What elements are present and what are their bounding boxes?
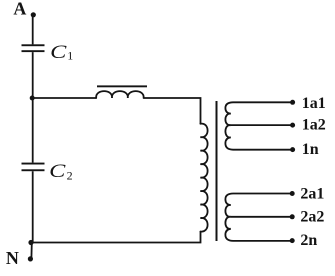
svg-text:C: C <box>50 42 67 63</box>
wire A dot to C1 top plate <box>32 15 34 44</box>
svg-text:N: N <box>6 248 19 268</box>
wire C2 to bottom junction <box>32 171 34 242</box>
wire junction to N terminal <box>30 243 32 259</box>
terminal dot 2a1 <box>290 191 295 196</box>
capacitor C1 <box>22 44 45 46</box>
svg-text:A: A <box>13 0 26 19</box>
capacitor C2 <box>22 163 45 165</box>
svg-text:2a1: 2a1 <box>300 186 324 203</box>
svg-text:2n: 2n <box>300 232 317 249</box>
svg-text:2: 2 <box>67 169 73 183</box>
transformer primary winding W1 (8 half-loops) <box>200 124 207 232</box>
svg-text:1: 1 <box>67 49 73 63</box>
wire primary bottom to bottom rail <box>32 232 201 243</box>
bottom junction node dot <box>28 240 33 245</box>
node A terminal dot <box>31 12 36 17</box>
wire junction to inductor <box>33 97 97 99</box>
transformer core <box>216 101 218 241</box>
terminal dot 1a1 <box>290 100 295 105</box>
svg-text:1n: 1n <box>302 141 319 158</box>
inductor core bar <box>97 85 147 87</box>
secondary winding W2 (taps 1a1/1a2/1n) <box>225 102 292 149</box>
inductor L (3 half-loops) <box>96 91 143 98</box>
terminal dot 1a2 <box>290 123 295 128</box>
terminal dot 2n <box>290 238 295 243</box>
node N terminal dot <box>28 256 33 261</box>
terminal dot 2a2 <box>290 214 295 219</box>
svg-text:1a1: 1a1 <box>302 95 326 112</box>
svg-text:2a2: 2a2 <box>300 209 324 226</box>
terminal dot 1n <box>290 147 295 152</box>
tap wire 2a2 <box>231 216 293 218</box>
svg-text:1a2: 1a2 <box>302 117 326 134</box>
junction node dot (left rail / horizontal wire) <box>30 96 35 101</box>
wire C1 to C2 <box>32 52 34 163</box>
wire inductor to top-right corner <box>144 98 201 124</box>
secondary winding W3 (taps 2a1/2a2/2n) <box>225 194 292 241</box>
svg-text:C: C <box>49 161 66 182</box>
tap wire 1a2 <box>231 124 293 126</box>
